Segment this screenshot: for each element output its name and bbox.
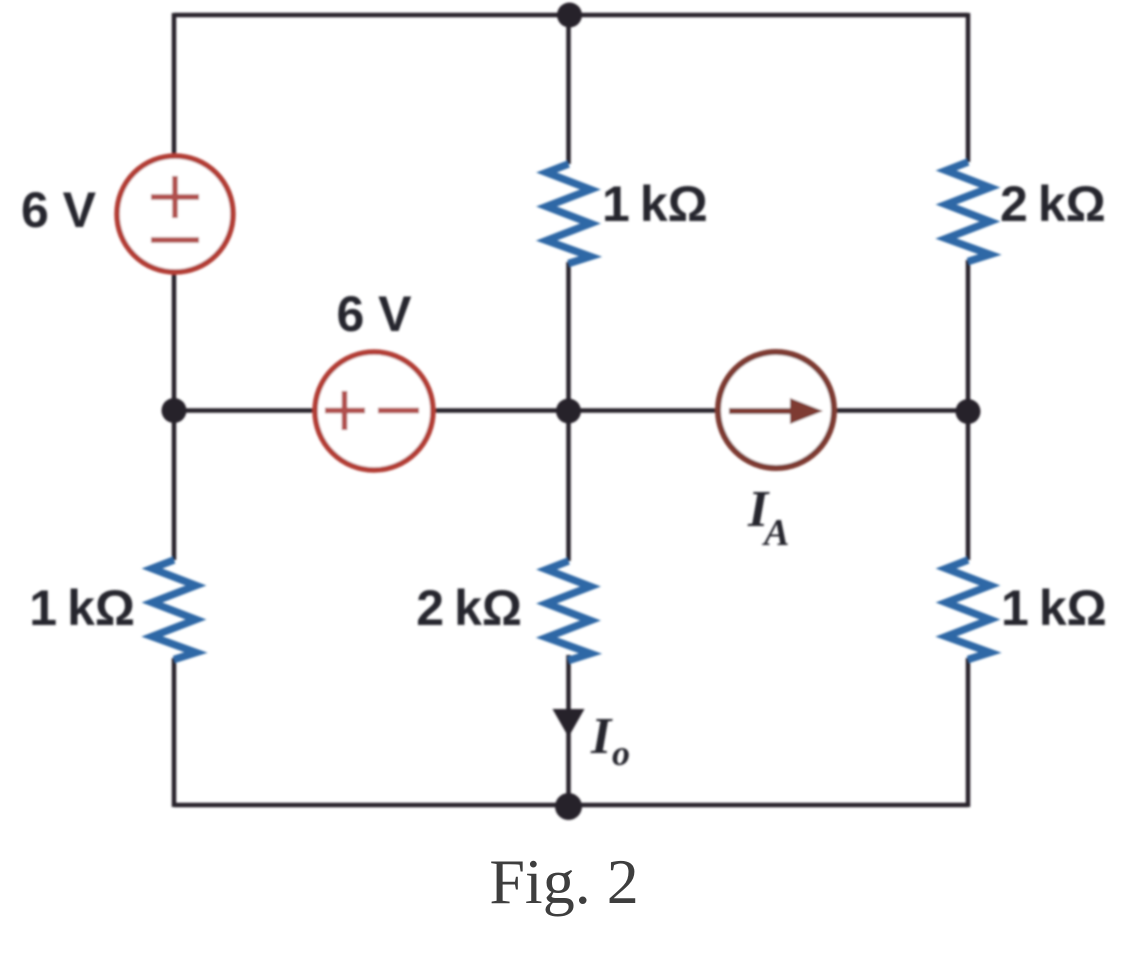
wire top horizontal xyxy=(174,13,968,18)
wire right vertical (node D to R5) xyxy=(966,410,971,560)
wire middle horizontal left (node B to V2) xyxy=(174,408,315,413)
wire middle vertical bottom (R4 to bottom node) xyxy=(566,655,571,807)
wire bottom horizontal xyxy=(174,803,968,808)
resistor R1 1kΩ (middle branch top) xyxy=(547,164,591,264)
svg-text:6 V: 6 V xyxy=(336,286,412,342)
svg-text:1 kΩ: 1 kΩ xyxy=(602,176,708,232)
svg-text:1 kΩ: 1 kΩ xyxy=(1001,580,1107,636)
svg-text:I: I xyxy=(590,708,613,765)
voltage source V1 6V (left branch) xyxy=(117,156,233,272)
svg-text:6 V: 6 V xyxy=(21,182,97,238)
node top (junction dot) xyxy=(557,3,582,28)
svg-text:2 kΩ: 2 kΩ xyxy=(416,580,522,636)
svg-text:2 kΩ: 2 kΩ xyxy=(1000,176,1106,232)
wire middle vertical (R1 to center node C) xyxy=(566,262,571,412)
current source IA (circle with right arrow) xyxy=(718,352,834,468)
resistor R4 2kΩ (middle branch bottom) xyxy=(547,561,591,661)
svg-text:A: A xyxy=(762,512,789,554)
current arrow Io (down arrow on middle bottom wire) xyxy=(553,709,585,737)
wire left vertical upper (top to V1) xyxy=(172,13,177,156)
node D (right middle junction dot) xyxy=(956,399,981,424)
wire middle horizontal center (V2 to node C) xyxy=(434,408,569,413)
wire right vertical upper (top to R2) xyxy=(966,13,971,162)
wire right vertical bottom (R5 to bottom rail) xyxy=(966,658,971,807)
node B (left middle junction dot) xyxy=(162,398,187,423)
node bottom (junction dot) xyxy=(555,793,582,820)
resistor R5 1kΩ (right branch bottom) xyxy=(946,560,990,660)
svg-text:o: o xyxy=(612,733,630,773)
wire right vertical (R2 to node D) xyxy=(966,260,971,412)
wire middle vertical upper (top node to R1) xyxy=(566,15,571,164)
wire middle horizontal (node C to IA source) xyxy=(569,408,719,413)
svg-text:1 kΩ: 1 kΩ xyxy=(29,580,135,636)
voltage source V2 6V (middle horizontal branch) xyxy=(315,352,433,470)
svg-text:Fig. 2: Fig. 2 xyxy=(489,846,638,917)
wire left vertical bottom (R3 to bottom rail) xyxy=(172,658,177,807)
resistor R3 1kΩ (left branch bottom) xyxy=(152,560,196,660)
resistor R2 2kΩ (right branch top) xyxy=(946,162,990,262)
wire middle vertical (node C to R4) xyxy=(566,410,571,561)
node C (center junction dot) xyxy=(556,399,581,424)
wire middle horizontal right (IA source to node D) xyxy=(835,408,968,413)
wire left vertical lower (node B to R3) xyxy=(172,410,177,560)
wire left vertical middle (V1 to node B) xyxy=(172,272,177,412)
